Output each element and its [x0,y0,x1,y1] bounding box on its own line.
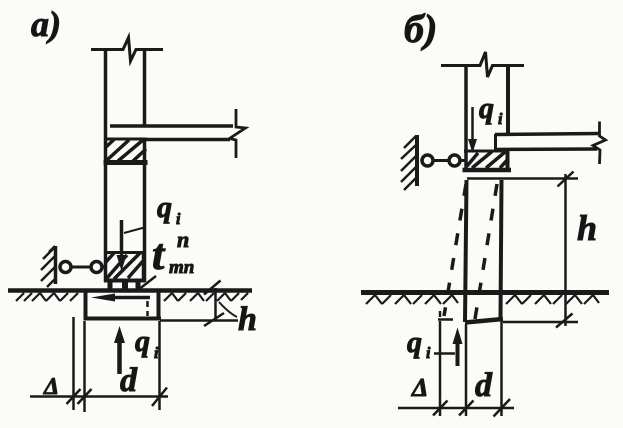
foundation A left edge [84,291,88,320]
svg-text:Δ: Δ [411,373,428,402]
svg-text:п: п [177,227,189,252]
displaced bottom tick B [438,318,453,321]
reaction arrow q_i foundation A [114,326,125,374]
foundation A bottom edge [84,317,162,321]
pile B left edge [465,180,467,322]
svg-text:d: d [475,367,493,404]
h label leader A [219,302,237,317]
link rod A to column [103,266,107,269]
dimension line A bottom [30,395,168,398]
soil hatch B right [506,295,599,304]
shear arrow in foundation A [91,294,150,302]
pile B bottom extension [503,321,578,324]
column B left edge [464,64,468,171]
dimension tick B2 [459,401,474,416]
wall support A [54,246,58,284]
beam B bottom chord [495,147,597,151]
soil hatch A right [164,293,248,301]
link rod A [72,266,91,269]
load arrow q_i column B [468,107,477,153]
column B right edge [506,64,510,135]
joint block A1 bottom line [104,160,148,165]
h dimension tick top B [558,172,574,187]
label h B [577,208,597,248]
label q_i B [407,326,431,362]
label delta A [43,374,59,400]
svg-text:t: t [152,230,166,279]
beam A right break [230,109,246,158]
dashed mark in foundation A [146,301,149,316]
dimension line B bottom [398,407,514,410]
beam A top chord [110,124,233,128]
bearing block A2 bottom line [104,279,145,283]
svg-text:q: q [479,92,494,125]
soil hatch B left [366,295,458,304]
column A upper break line [91,38,163,62]
column B upper break line [441,52,524,77]
beam A bottom chord [146,138,230,142]
h dimension tick bottom A [204,313,224,326]
load arrow q_i column A leader [124,227,146,233]
extension line A foundation right [158,321,161,410]
svg-text:Δ: Δ [43,374,59,400]
h dimension tick bottom B [556,314,573,328]
pile B right edge [501,180,502,320]
label t leader [138,276,156,290]
bearing block B bottom line [463,168,512,173]
svg-text:q: q [135,325,150,358]
beam B left end cap [494,134,497,150]
extension line A foundation left [83,321,86,412]
soil hatch A left [16,293,78,301]
link rod B [434,159,449,162]
column A left edge [104,48,108,282]
hinge circle B1 [422,155,433,166]
bearing block B hatch [467,152,508,169]
wall support B hatch [401,136,416,190]
bearing block B top line [464,150,509,153]
pile B deflected axis dashed left [444,184,466,316]
beam B top chord [495,134,600,135]
teeth under block A2 [108,282,141,289]
beam B right break [593,122,606,165]
label q_i foundation A [135,325,159,362]
svg-text:тп: тп [169,257,194,278]
bearing block A2 hatch [106,253,143,279]
svg-text:i: i [426,345,431,362]
joint block A1 top line [104,138,147,141]
h top extension line B [467,177,578,180]
hinge circle A2 [91,262,102,273]
svg-text:h: h [577,208,597,248]
foundation A bottom extension [160,319,238,322]
bearing block B right edge [506,150,510,171]
extension line B pile right [500,321,503,416]
wall support A hatch [41,246,55,287]
column A right edge lower [143,139,147,282]
svg-text:б): б) [404,6,437,51]
ground line A [8,288,252,293]
svg-text:а): а) [31,4,61,44]
foundation A right edge [157,291,161,320]
label q_i B leader [434,352,455,355]
load arrow q_i column A [117,220,127,271]
hinge circle B2 [449,155,460,166]
label d A [120,362,138,399]
label a) [31,4,61,44]
dimension tick B3 [494,399,511,417]
label delta B [411,373,428,402]
bearing block A2 top line [104,251,145,254]
dimension tick A1 [67,389,81,404]
link rod B to column [461,159,466,162]
ground line B [361,290,609,295]
svg-text:q: q [407,326,422,359]
label q_i column B [479,92,503,128]
dimension tick A2 [78,389,92,404]
extension line B delta left [439,321,442,416]
column A right edge upper [143,48,147,126]
label h A [238,301,257,338]
pile B deflected axis dashed right [475,184,497,319]
svg-text:q: q [157,191,172,224]
extension line B delta left upper dash [439,311,442,317]
dimension tick A3 [152,388,167,407]
svg-text:i: i [498,111,503,128]
svg-text:d: d [120,362,138,399]
h dimension line A [214,288,217,321]
pile B bottom edge [465,319,503,323]
hinge circle A1 [60,262,71,273]
label d B [475,367,493,404]
extension line B pile left [465,324,468,416]
bearing block A2 right edge [142,252,146,281]
label q_i column A [157,191,181,228]
h dimension line B [564,174,567,326]
dimension tick B1 [433,401,448,416]
extension line A delta left [72,317,75,410]
wall support B [415,135,419,186]
label t_tp [152,227,194,279]
svg-text:i: i [176,211,181,228]
svg-text:h: h [238,301,257,338]
h dimension tick top A [204,281,221,295]
joint block A1 hatch [106,140,146,162]
reaction arrow q_i B [453,328,463,367]
label b) [404,6,437,51]
